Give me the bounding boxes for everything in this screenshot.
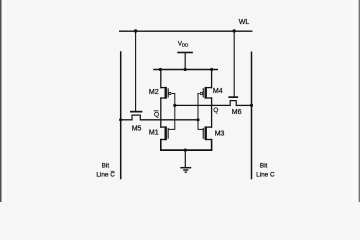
node dot bit line C-bar to M5 (119, 118, 122, 121)
transistor M6 access NMOS (228, 96, 238, 106)
wire M3 gate link to node Q-bar (198, 120, 204, 130)
svg-text:M5: M5 (132, 125, 142, 132)
wire M3 source drop (211, 139, 213, 151)
svg-text:Bit: Bit (102, 162, 110, 169)
svg-text:VDD: VDD (178, 41, 188, 48)
ground symbol (180, 168, 191, 172)
svg-text:Bit: Bit (260, 162, 268, 169)
svg-text:M1: M1 (149, 130, 159, 137)
node dot WL to M6 gate (233, 29, 236, 32)
transistor M1 NMOS pull-down (160, 126, 168, 140)
wire M6 source to bit line C (236, 104, 251, 106)
power VDD T-bar (177, 52, 193, 54)
node dot Q-bar at right gate line (196, 118, 199, 121)
wire M2 source (160, 70, 162, 89)
node dot Q at left gate line (173, 104, 176, 107)
transistor M2 PMOS pull-up (160, 87, 171, 99)
svg-text:M4: M4 (213, 88, 223, 95)
wire M1 source drop (160, 139, 162, 151)
svg-text:Q: Q (154, 112, 159, 119)
wire bit line C (251, 52, 253, 180)
wire M1 gate link to node Q (168, 105, 175, 129)
node dot ground junction (184, 149, 187, 152)
wire M4 source (211, 70, 213, 89)
wire M2 gate link to node Q (172, 94, 175, 106)
wire ground rail (160, 149, 212, 151)
wire M6 gate from WL (233, 31, 235, 97)
wire left drain rail Q-bar node (160, 97, 162, 128)
svg-text:Line C: Line C (256, 172, 275, 179)
transistor M3 NMOS pull-down (203, 126, 212, 140)
svg-text:WL: WL (239, 19, 250, 26)
wire ground stem (184, 150, 186, 167)
wire WL word line (119, 30, 252, 32)
wire M5 gate from WL (135, 31, 137, 112)
label node Q-bar overbar (154, 110, 159, 112)
svg-text:M3: M3 (215, 130, 225, 137)
wire M4 gate link to node Q-bar (198, 94, 199, 120)
wire right drain rail Q node (211, 97, 213, 128)
node dot WL to M5 gate (134, 29, 137, 32)
svg-text:M2: M2 (149, 89, 159, 96)
svg-text:Q: Q (213, 107, 218, 114)
svg-text:M6: M6 (232, 109, 242, 116)
svg-text:Line C̅: Line C̅ (96, 171, 115, 179)
node dot VDD to M2 (159, 68, 162, 71)
wire node Q-bar horizontal (140, 119, 198, 121)
node dot VDD to M4 (210, 68, 213, 71)
node dot VDD stem (184, 68, 187, 71)
transistor M4 PMOS pull-up (200, 87, 212, 99)
wire bit line C-bar (120, 51, 122, 179)
wire VDD rail (153, 69, 218, 71)
wire VDD stem (184, 53, 186, 70)
wire node Q horizontal (175, 104, 230, 106)
node dot bit line C to M6 (250, 104, 253, 107)
transistor M5 access NMOS (130, 111, 142, 121)
wire node Q-bar horizontal left of M5 (121, 119, 132, 121)
